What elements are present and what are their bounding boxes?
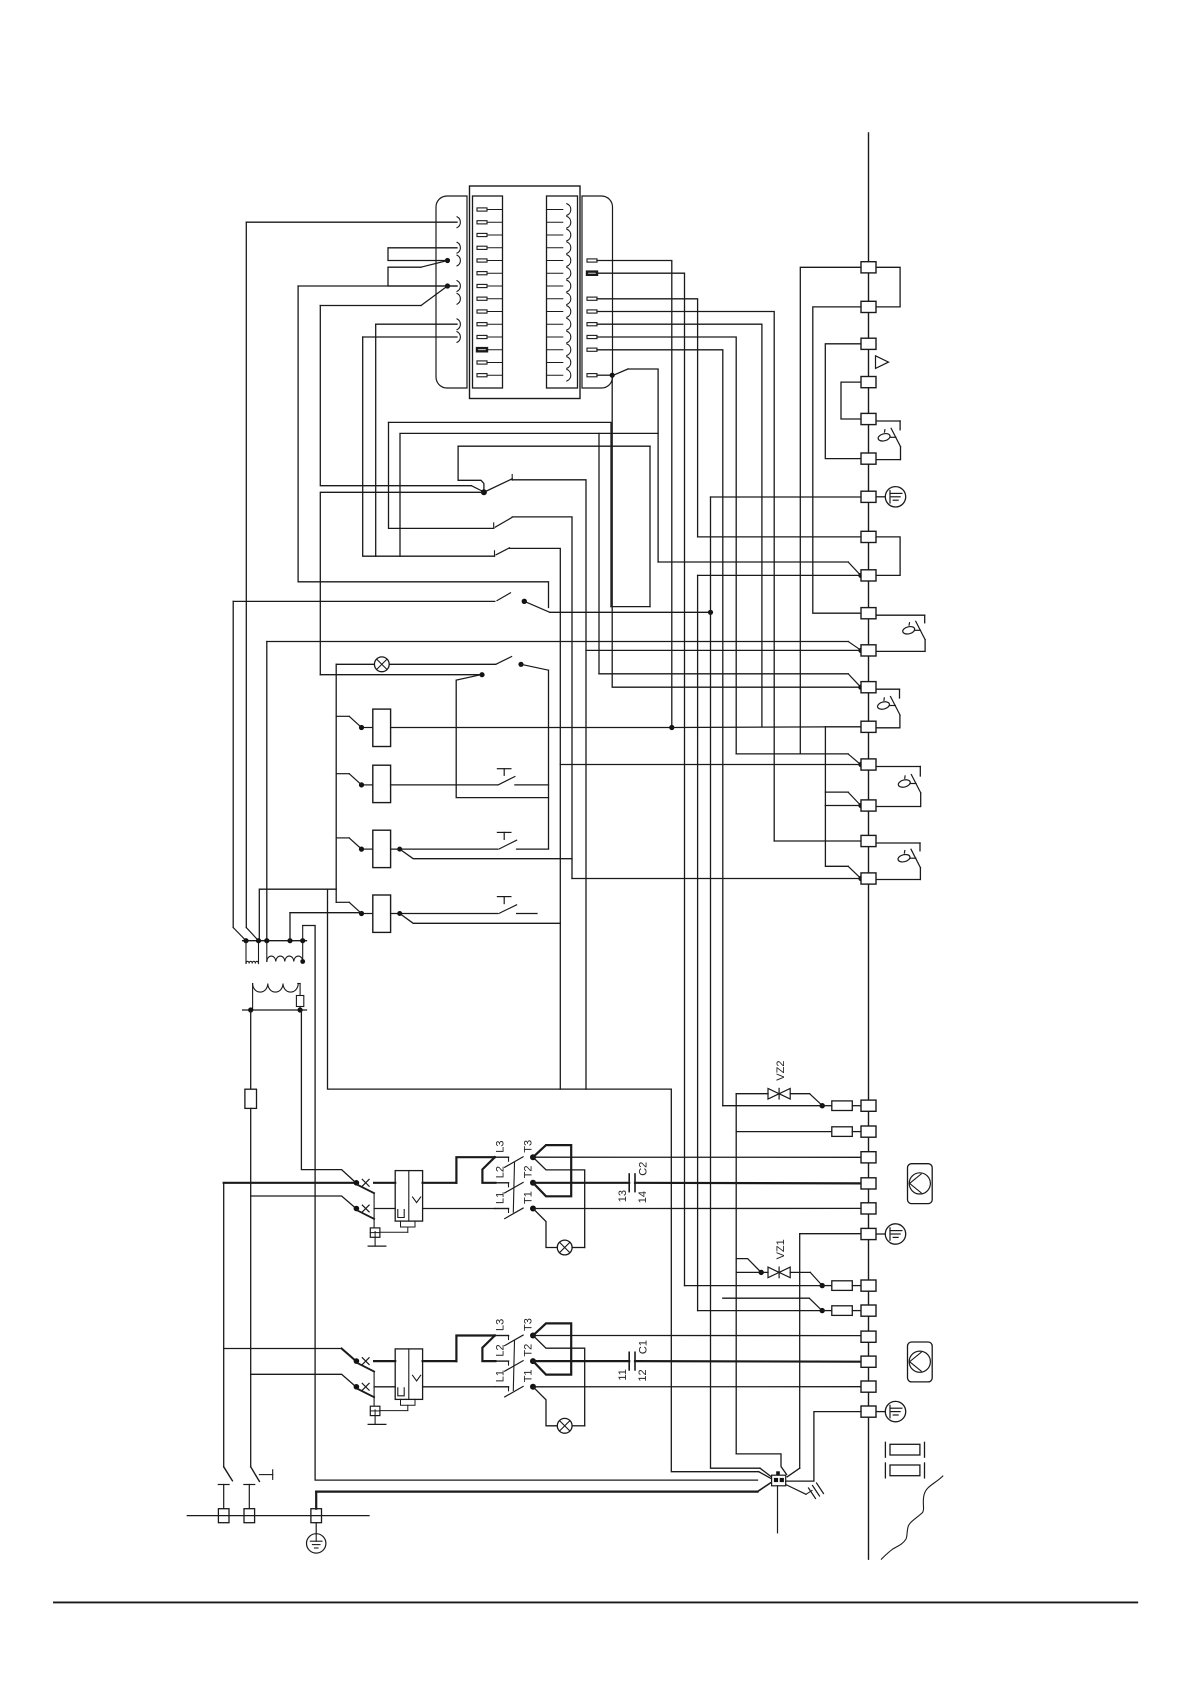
wire rail left x=246 (245, 222, 247, 927)
wire T805-T878 second loop (825, 806, 848, 867)
node winding2 right (300, 959, 305, 964)
wire staircase x=388 (389, 422, 494, 528)
wire coil K2 out (391, 784, 498, 786)
terminal X1:1310 on bus (861, 1305, 876, 1316)
wire stub to rail (336, 901, 349, 903)
svg-text:11: 11 (617, 1369, 629, 1380)
wire row 675 from rail (320, 674, 481, 676)
terminal X1:267 on bus (861, 262, 876, 273)
pin 4 left strip (477, 246, 487, 249)
wire into X1 from Pi (759, 1472, 771, 1479)
switch SB2 blade (496, 657, 512, 665)
main switch QS pole1 blade (224, 1467, 233, 1481)
contactor fixed contact L3 (495, 1156, 509, 1158)
node junction at arc 5 (445, 258, 450, 263)
holding loop wire (456, 680, 548, 798)
resistor R1 in secondary (296, 996, 303, 1007)
wire row 792 from loop (825, 791, 848, 793)
wire w1 to housing arc 2 (246, 221, 457, 223)
node contactor T3 (530, 1333, 536, 1339)
plunger ellipse (902, 625, 916, 635)
wire VZ1 feed from chain (736, 1259, 760, 1272)
lamp HL (557, 1418, 572, 1433)
wire row 1131 from VZ chain (736, 1131, 832, 1133)
connector right pin strip (547, 196, 578, 388)
contact blade coil K3 (349, 838, 361, 849)
wire T1 to lamp (533, 1387, 557, 1426)
blade VZ1 to fuse row (810, 1272, 821, 1284)
terminal X1:1336 on bus (861, 1331, 876, 1342)
wire pin12 right (597, 350, 723, 1106)
contactor KM moving blades (505, 1157, 523, 1168)
wire row 446 right (458, 445, 650, 447)
terminal X1:687 on bus (861, 682, 876, 693)
plunger ellipse (897, 853, 911, 863)
wire QF to relay thin (374, 1386, 395, 1388)
wire T306 left to x=812 (813, 307, 861, 613)
wire T650 straight (586, 649, 861, 651)
switch blade (911, 849, 921, 868)
plunger rod (910, 783, 916, 785)
break wavy line (881, 1476, 942, 1559)
wire loop top diag (521, 664, 549, 670)
plunger rod (890, 436, 896, 438)
blade row 1310 (809, 1298, 821, 1310)
pin 6 left strip (477, 272, 487, 275)
node tx4 (287, 938, 292, 943)
terminal X1:1234 on bus (861, 1228, 876, 1239)
contactor fixed contact L2 (495, 1182, 509, 1184)
contact arc left housing pin 8 (457, 293, 460, 304)
wire L3-L2 bold jumper (482, 1157, 495, 1183)
circuit breaker QF pole2 blade (358, 1389, 375, 1397)
right loop T267-T306 (876, 267, 900, 307)
wire stub to rail (336, 715, 349, 717)
terminal X1:496 on bus (861, 491, 876, 502)
node coil K4 left (359, 911, 364, 916)
wire stub to rail (336, 837, 349, 839)
wire pin14 with junction (597, 374, 611, 376)
terminal X1:1105 on bus (861, 1100, 876, 1111)
wire rail B x=250 down with fuse (250, 1010, 252, 1089)
wire T382-T419 left loop (841, 382, 861, 419)
node tx2 (256, 938, 261, 943)
contact arc left housing pin 11 (457, 332, 460, 343)
wire T2 bold row to capacitor (533, 1360, 629, 1362)
wire T3 thin branch to lamp riser (533, 1336, 585, 1426)
contact arc 10 right strip (547, 323, 563, 325)
primary winding 1 (245, 941, 247, 964)
contact arc left housing pin 10 (457, 319, 460, 330)
wire T536 left (698, 536, 861, 538)
svg-text:T3: T3 (523, 1318, 535, 1331)
node txb2 (298, 1007, 303, 1012)
circuit breaker QF pole1 blade (358, 1185, 375, 1193)
node contactor T1 (530, 1384, 536, 1390)
switch blade (891, 697, 901, 716)
contactor fixed contact L2 (495, 1360, 509, 1362)
wire row 727 to loop and terminal (672, 726, 826, 729)
wire tx loop to X1 rail (303, 926, 758, 1481)
contact arc 3 right strip (547, 234, 563, 236)
wire pin6 right (597, 273, 685, 1285)
terminal X1:1285 on bus (861, 1280, 876, 1291)
wire blade row 674 (599, 673, 848, 675)
contact blade coil K1 (349, 716, 361, 727)
earth-circle ground symbol at (895,496) (885, 487, 905, 507)
node contactor T2 (530, 1358, 536, 1364)
terminal XT1 (218, 1509, 229, 1523)
contact arc 12 right strip (547, 349, 563, 351)
suppressor VZ1 bowtie symbol (768, 1267, 779, 1278)
wire coil4 branch (400, 914, 561, 924)
pin 1 left strip (477, 208, 487, 211)
node T650 (858, 648, 863, 653)
contact K6 blade (499, 840, 517, 849)
wire capacitor to bus bold (635, 1360, 861, 1363)
motor pump symbol (908, 1342, 933, 1382)
wire lamp right (572, 1247, 585, 1249)
wire T497 to earth circle (876, 496, 885, 498)
wire VZ1 right lead (790, 1271, 810, 1273)
secondary winding (253, 984, 299, 993)
wire row 1298 corner from x=722 (723, 1297, 810, 1299)
wire coil K1 left (362, 727, 373, 729)
wire aux leg x=290 (289, 913, 291, 941)
switch blade (911, 775, 921, 794)
transformer bottom bus (243, 1009, 307, 1011)
wire T1 to lamp (533, 1209, 557, 1248)
buzzer triangle symbol (876, 356, 889, 369)
contact K tick (493, 523, 495, 529)
wire row 492 from rail (320, 492, 484, 674)
terminal X1:536 on bus (861, 531, 876, 542)
terminal X1:1386 on bus (861, 1381, 876, 1392)
wire row 1234 from X1 riser (800, 1233, 861, 1235)
overload symbol > (413, 1375, 421, 1381)
wire T726 left loop (824, 727, 826, 806)
contactor fixed contact L1 (495, 1208, 509, 1210)
contact arc 4 right strip (547, 247, 563, 249)
thermal overload relay KT box (395, 1349, 422, 1400)
terminal X1:419 on bus (861, 413, 876, 424)
wire row 1310 from x=697 (698, 1310, 823, 1312)
node coil3 out (397, 847, 402, 852)
wire row 497 to terminal (711, 496, 862, 498)
svg-text:T2: T2 (523, 1344, 535, 1357)
plunger ellipse (898, 779, 912, 789)
node loop top (518, 662, 523, 667)
node txb1 (248, 1007, 253, 1012)
contact arc 13 right strip (547, 362, 563, 364)
switch blade from arc 5 (421, 261, 448, 268)
wire PE bus bold to X1 (316, 1490, 757, 1492)
wire QF to relay bold (374, 1182, 395, 1184)
wire T2 bold row to capacitor (533, 1182, 629, 1184)
wire QF1 bold feed row (224, 1182, 357, 1184)
pin 13 left strip (477, 361, 487, 364)
wire fuse to terminal (852, 1105, 861, 1107)
pin 7 left strip (477, 284, 487, 287)
thermal overload relay KT box (395, 1171, 422, 1222)
node fuse row 1310 (820, 1308, 825, 1313)
switch blade (916, 621, 926, 640)
terminal X1:878 on bus (861, 873, 876, 884)
node coil4 out (397, 911, 402, 916)
node fuse row 1105 (820, 1103, 825, 1108)
wire loop right leg (548, 670, 550, 848)
relay box bottom linkage (401, 1221, 416, 1227)
contact K5 T-bar (497, 768, 511, 770)
transformer top bus (243, 940, 307, 942)
contact arc left housing pin 7 (457, 281, 460, 292)
wire Pi feeder top (328, 889, 759, 1471)
drawing frame separator line (54, 1601, 1137, 1603)
contact arc 9 right strip (547, 311, 563, 313)
contact arc 1 right strip (547, 209, 563, 211)
pin 5 right housing (587, 259, 597, 262)
fuse FU1 (245, 1089, 257, 1108)
plunger rod (889, 705, 895, 707)
wire contact out row 517 (512, 517, 572, 859)
main switch QS pole2 blade (251, 1467, 260, 1482)
wire K7 out (517, 913, 537, 915)
wire coil K4 out (391, 913, 498, 915)
wire T841 left (774, 840, 861, 842)
circuit breaker link (373, 1372, 375, 1406)
node coil K3 left (359, 847, 364, 852)
wire K6 out (517, 848, 549, 850)
wire T575 straight (698, 574, 861, 576)
contact K7 T-bar (497, 896, 511, 898)
primary winding 2 (266, 941, 268, 962)
pin 2 left strip (477, 221, 487, 224)
right loop T536-T575 (876, 537, 900, 576)
blade into T878 (848, 866, 860, 877)
svg-text:VZ2: VZ2 (775, 1061, 787, 1081)
node T805 (858, 803, 863, 808)
wire relay out thin to L1 (423, 1386, 495, 1388)
svg-text:T1: T1 (523, 1369, 535, 1382)
node T687 (858, 685, 863, 690)
terminal X1:726 on bus (861, 721, 876, 732)
wire capacitor to bus bold (635, 1182, 861, 1185)
wire into X1 from x=710 (760, 1468, 771, 1476)
plunger rod (910, 857, 916, 859)
wire VZ1 left lead (736, 1271, 768, 1273)
contactor KM moving blades (505, 1335, 523, 1346)
overload symbol > (413, 1197, 421, 1203)
circuit breaker QF pole 2 x-mark (362, 1205, 369, 1212)
svg-text:T1: T1 (523, 1191, 535, 1204)
contactor link line (513, 1163, 514, 1213)
wire rail x=362 staircase (363, 337, 495, 556)
svg-text:T2: T2 (523, 1165, 535, 1178)
wire T3 row to bus terminal (533, 1335, 861, 1337)
node coil K2 left (359, 782, 364, 787)
connector left plug housing (436, 196, 467, 388)
wire X1 riser x=799 (799, 1234, 801, 1469)
wire T878 straight (572, 878, 861, 880)
pin 5 left strip (477, 259, 487, 262)
wire L3-L2 bold jumper (482, 1336, 495, 1362)
pin 6 right housing (587, 272, 597, 275)
node SA1 (481, 489, 487, 495)
terminal X1:841 on bus (861, 835, 876, 846)
circuit breaker QF pole1 blade (358, 1363, 375, 1371)
wire relay out bold step up to L3 (423, 1360, 457, 1362)
wire blade row 562 (658, 561, 848, 563)
wire rail branch row 889 (259, 889, 336, 938)
node tx3 (264, 938, 269, 943)
wire rail A x=223 (223, 1183, 225, 1467)
bus line N (868, 133, 870, 1559)
circuit breaker bottom stub (374, 1416, 376, 1425)
contact arc left housing pin 2 (457, 217, 460, 228)
wire tx right leg to QF1 (300, 1010, 356, 1183)
node VZ1 left (759, 1270, 764, 1275)
wire w6 to arc 10 (376, 323, 457, 325)
wire T343 left loop (825, 344, 861, 459)
node fuse row 1285 (820, 1283, 825, 1288)
limit switch with plunger between y=687 and y=726 (876, 688, 900, 690)
connector X0 outer body (470, 186, 581, 399)
limit switch with plunger between y=841 and y=878 (876, 842, 920, 844)
wire blade row 641 long (848, 642, 860, 650)
contact K5 blade (498, 777, 515, 785)
wire coil3 branch (400, 849, 572, 878)
fuse F at (831,1105) (832, 1101, 853, 1111)
wire rail x=266 down (266, 642, 268, 941)
wire row 422 to x=611 (389, 422, 612, 606)
switch blade from arc 7 (421, 286, 448, 306)
pin 14 left strip (477, 374, 487, 377)
wire T3-T2 bold loop (533, 1145, 571, 1196)
pin 8 right housing (587, 297, 597, 300)
svg-text:VZ1: VZ1 (775, 1239, 787, 1259)
wire fuse3 to terminal (852, 1285, 861, 1287)
switch blade from pin14 dot (614, 369, 628, 375)
thermal element symbol (398, 1388, 404, 1396)
wire relay out thin to L1 (423, 1208, 495, 1210)
switch blade (891, 428, 901, 447)
wire T764 straight (560, 764, 861, 766)
node junction at arc 7 (445, 283, 450, 288)
circuit breaker actuator box (370, 1228, 380, 1237)
circuit breaker QF pole 1 x-mark (362, 1358, 369, 1365)
wire VZ1 chain to X1 (735, 1259, 737, 1454)
wire rail B tap to QF1 (251, 1196, 356, 1209)
contact K7 blade (499, 905, 517, 914)
svg-text:13: 13 (617, 1190, 629, 1202)
wire row 433 to x=400 (400, 433, 658, 556)
wire row 641 long to terminal 639 (267, 641, 848, 643)
plunger ellipse (877, 432, 891, 442)
ground symbol below XT3 (315, 1523, 317, 1534)
relay coil K3 (373, 830, 391, 867)
earth-circle ground symbol at (895,1411) (885, 1401, 905, 1421)
wire pole1 lower tee (218, 1484, 229, 1486)
wire pole2 lower tee (244, 1484, 255, 1486)
wire fuse4 to terminal (852, 1310, 861, 1312)
pin 12 left strip (477, 348, 487, 351)
node junction coil1 row (669, 725, 674, 730)
blade into T805 (848, 792, 860, 805)
wire stub lower (388, 267, 457, 286)
node QF input bold (354, 1180, 360, 1186)
wire lamp to switch (389, 663, 496, 665)
wire into X1 from VZ chain (736, 1454, 786, 1475)
contactor link line (513, 1341, 514, 1391)
contact arc 7 right strip (547, 285, 563, 287)
terminal block cover rect 1 (890, 1444, 920, 1455)
wire lamp row (336, 663, 374, 665)
pin 9 left strip (477, 310, 487, 313)
contact K6 T-bar (497, 831, 511, 833)
contact blade coil K4 (349, 902, 361, 913)
capacitor C1 (628, 1352, 630, 1370)
wire VZ2 chain down (735, 1094, 737, 1259)
svg-text:12: 12 (637, 1369, 649, 1381)
wire x=697 lower segment (697, 575, 699, 1310)
node QF input thin (354, 1206, 360, 1212)
terminal X1:1361 on bus (861, 1356, 876, 1367)
wire bridge row 606 (611, 606, 650, 608)
wire SB1 out row 612 (550, 611, 711, 613)
terminal X1:613 on bus (861, 608, 876, 619)
wire X1 stub down (777, 1486, 779, 1533)
node contactor T2 (530, 1180, 536, 1186)
plunger ellipse (877, 701, 891, 711)
contact K2 tick (494, 551, 496, 556)
circuit breaker bottom stub (374, 1237, 376, 1246)
fuse F at (831,1310) (832, 1306, 853, 1316)
wire x=650 down to SB1 row (649, 446, 651, 606)
node T878 (858, 876, 863, 881)
wire T3-T2 bold loop (533, 1323, 571, 1374)
contact arc left housing pin 4 (457, 242, 460, 253)
wire pin8 right (597, 299, 698, 537)
wire tx loop leg (302, 926, 304, 941)
node tx5 (300, 938, 305, 943)
wire lamp right (572, 1425, 585, 1427)
wire rail x=320 upper (320, 306, 471, 486)
suppressor VZ2 bowtie symbol (768, 1088, 779, 1099)
limit switch with plunger between y=419 and y=458 (876, 420, 900, 422)
wire rail A tap to QF2 bold (224, 1348, 342, 1350)
switch SB1 blade (497, 593, 511, 601)
node junction x=710 (708, 610, 713, 615)
wire rail B tap to QF2 (251, 1374, 356, 1387)
wire to rail x=320 (320, 305, 421, 307)
terminal X1:764 on bus (861, 759, 876, 770)
relay coil K1 (373, 709, 391, 746)
contact arc 8 right strip (547, 298, 563, 300)
pin 12 right housing (587, 348, 597, 351)
wire housing edge down to row 687 (612, 375, 860, 687)
lamp HL1 (374, 657, 389, 672)
connector left pin strip (473, 196, 503, 388)
switch SA1 input blade (471, 486, 483, 492)
pin 14 right housing (587, 374, 597, 377)
wire QF to relay thin (374, 1208, 395, 1210)
node contactor T3 (530, 1154, 536, 1160)
relay coil K2 (373, 765, 391, 802)
relay coil K4 (373, 895, 391, 932)
contact arc 11 right strip (547, 336, 563, 338)
wire w7 to arc 11 (363, 336, 457, 338)
wire pin9 right (597, 312, 774, 842)
